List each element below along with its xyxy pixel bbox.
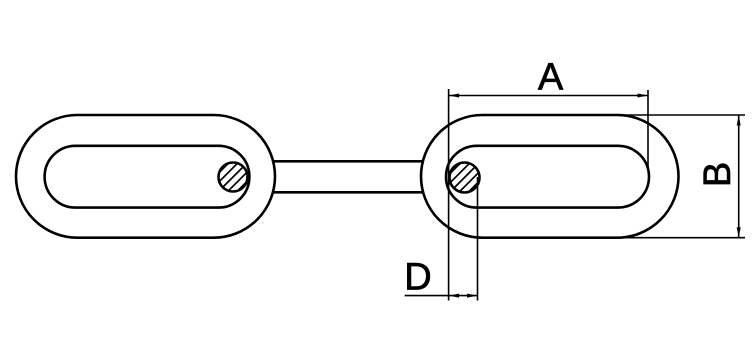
dimension B top extension line — [610, 114, 745, 116]
left cross-section hatching — [210, 154, 257, 201]
dimension B bottom arrowhead — [737, 227, 741, 238]
dimension B line — [738, 115, 740, 238]
middle link (edge view) top wire — [258, 160, 440, 163]
svg-text:B: B — [697, 162, 739, 187]
svg-text:D: D — [404, 257, 431, 299]
dimension D right extension line — [477, 177, 479, 301]
dimension B bottom extension line — [610, 237, 745, 239]
middle link (edge view) bottom wire — [258, 191, 440, 194]
dimension D line with leader — [405, 295, 478, 297]
dimension D right arrowhead — [467, 294, 478, 298]
svg-text:A: A — [538, 57, 564, 99]
dimension A left arrowhead — [449, 94, 460, 98]
dimension B top arrowhead — [737, 115, 741, 126]
left wire cross-section circle — [219, 163, 248, 192]
left chain link inner outline — [45, 146, 250, 208]
dimension A right arrowhead — [638, 94, 649, 98]
right chain link inner outline — [446, 146, 649, 208]
dimension A right extension line — [647, 90, 649, 168]
right chain link outer outline — [421, 115, 679, 238]
right cross-section hatching — [441, 154, 488, 201]
left chain link outer outline — [16, 115, 275, 238]
right wire cross-section circle — [450, 163, 480, 193]
dimension A line — [449, 95, 648, 97]
dimension A left extension line (shared with D) — [448, 89, 450, 301]
dimension D left arrowhead — [449, 294, 460, 298]
